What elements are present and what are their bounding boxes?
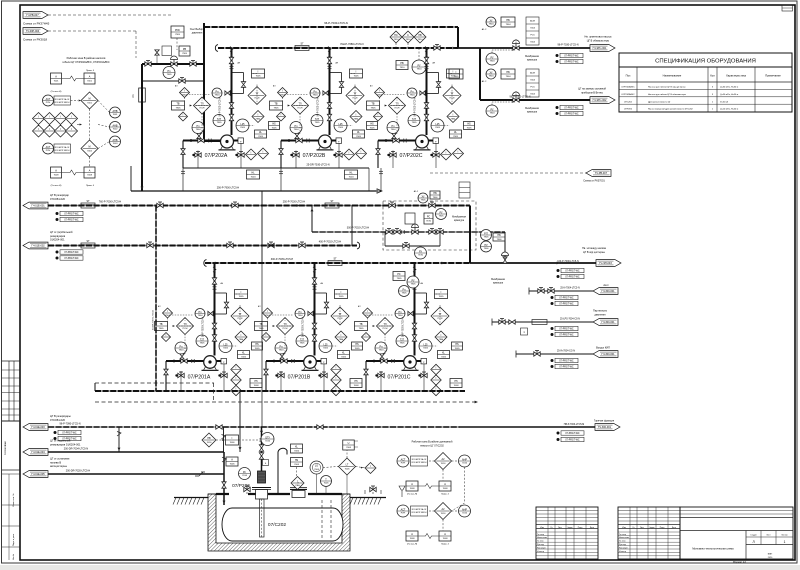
svg-text:Листов: Листов bbox=[781, 535, 787, 537]
svg-text:7904: 7904 bbox=[489, 24, 495, 26]
svg-text:ПВ: ПВ bbox=[207, 437, 211, 440]
svg-text:Кол: Кол bbox=[710, 74, 715, 78]
svg-text:07/Р202С: 07/Р202С bbox=[399, 153, 422, 159]
svg-text:Взам. инв. №: Взам. инв. № bbox=[12, 493, 15, 507]
svg-text:7016: 7016 bbox=[462, 463, 468, 465]
line class tag 1 bbox=[556, 54, 559, 57]
svg-text:давления: давления bbox=[594, 314, 606, 317]
svg-text:НS: НS bbox=[295, 459, 299, 462]
svg-text:07/С081-020: 07/С081-020 bbox=[50, 418, 66, 422]
svg-text:7005: 7005 bbox=[258, 136, 264, 138]
svg-text:Гл.техн: Гл.техн bbox=[537, 541, 544, 543]
svg-text:07/С202: 07/С202 bbox=[268, 522, 286, 528]
svg-text:ПВЧ: ПВЧ bbox=[239, 339, 244, 341]
svg-text:(Уч вых-Н): (Уч вых-Н) bbox=[51, 91, 62, 93]
svg-text:50-DR-7007-LTC5-N: 50-DR-7007-LTC5-N bbox=[153, 309, 155, 330]
pump 07/P201B bbox=[304, 356, 317, 369]
svg-text:Лист: Лист bbox=[640, 527, 644, 529]
wire riser between bottom lines bbox=[118, 427, 120, 452]
svg-text:V=10 м3: V=10 м3 bbox=[720, 101, 729, 103]
svg-text:07/Р201В: 07/Р201В bbox=[288, 375, 311, 381]
svg-text:ЦГ от подземной: ЦГ от подземной bbox=[50, 439, 71, 443]
svg-text:7904: 7904 bbox=[313, 95, 319, 97]
svg-text:ГЧ-ЭП-003: ГЧ-ЭП-003 bbox=[599, 262, 612, 265]
svg-text:7008: 7008 bbox=[87, 175, 93, 177]
logic dashed link 2 bbox=[89, 157, 91, 167]
svg-text:арматура: арматура bbox=[454, 220, 465, 222]
svg-text:7004: 7004 bbox=[530, 80, 536, 82]
svg-text:прибором В Ветны: прибором В Ветны bbox=[581, 92, 603, 95]
restriction orifice C1 bbox=[139, 88, 146, 102]
svg-text:7905: 7905 bbox=[176, 108, 182, 110]
svg-text:Пар низкого: Пар низкого bbox=[593, 310, 608, 313]
alarm circle АНВ-7001 bbox=[110, 107, 121, 118]
svg-text:25-LPS-7004-CS-N: 25-LPS-7004-CS-N bbox=[560, 319, 580, 321]
valve on 400 header extra bbox=[268, 243, 274, 247]
svg-text:7904: 7904 bbox=[179, 350, 185, 352]
svg-text:(Уч вых-Н): (Уч вых-Н) bbox=[407, 494, 418, 496]
wire air line bbox=[516, 353, 593, 355]
expansion vessel bbox=[162, 46, 172, 56]
svg-text:07/С081-020: 07/С081-020 bbox=[50, 197, 66, 201]
svg-text:Рабочая зона В районе насосов: Рабочая зона В районе насосов bbox=[67, 56, 106, 60]
svg-text:7008: 7008 bbox=[443, 488, 449, 490]
level dashed lines in tank bbox=[321, 500, 323, 538]
svg-text:(Уч вых-Н): (Уч вых-Н) bbox=[51, 185, 62, 187]
svg-text:7904: 7904 bbox=[298, 315, 304, 317]
svg-text:7905: 7905 bbox=[411, 284, 417, 286]
svg-text:7005: 7005 bbox=[241, 357, 247, 359]
box PDI-7910 bbox=[396, 61, 408, 70]
svg-text:НБ: НБ bbox=[497, 234, 501, 237]
vent valve bbox=[155, 50, 159, 55]
box steam 1 bbox=[521, 328, 528, 335]
flag ЦГ от резервуаров bbox=[23, 242, 48, 249]
pressure reducing line bbox=[142, 63, 204, 65]
svg-text:LG: LG bbox=[315, 465, 318, 468]
svg-text:ПСН: ПСН bbox=[183, 328, 188, 330]
svg-text:7904: 7904 bbox=[365, 315, 371, 317]
logic text box 2 bbox=[54, 144, 71, 153]
svg-text:Наименование: Наименование bbox=[663, 74, 682, 78]
svg-text:07-PRGT-WC: 07-PRGT-WC bbox=[559, 361, 574, 363]
pump 07/P201C piping bbox=[366, 360, 404, 362]
svg-text:7905: 7905 bbox=[371, 108, 377, 110]
svg-text:ВУ В НКПР ГАЗОН: ВУ В НКПР ГАЗОН bbox=[412, 461, 427, 464]
svg-text:М: М bbox=[89, 146, 91, 149]
wire steam line bbox=[492, 321, 593, 323]
ground line left bbox=[174, 497, 208, 499]
valve on reducing line left bbox=[145, 62, 151, 66]
svg-text:7905: 7905 bbox=[200, 343, 206, 345]
station dashed enclosure bbox=[383, 201, 476, 250]
nozzle valves on pit top bbox=[244, 487, 250, 491]
coupling box on column bbox=[263, 460, 269, 466]
wire riser A to recirc bbox=[182, 168, 184, 191]
dosing control valve station 1 bbox=[486, 17, 496, 27]
svg-text:РУН: РУН bbox=[46, 102, 51, 104]
gas detector diamonds row 2 bbox=[33, 125, 45, 137]
svg-text:ТВ: ТВ bbox=[371, 103, 374, 106]
svg-text:ТВ: ТВ bbox=[259, 323, 262, 326]
flag ЦГ В резервуар bbox=[23, 202, 48, 209]
svg-text:7904: 7904 bbox=[265, 315, 271, 317]
svg-text:7904: 7904 bbox=[379, 350, 385, 352]
svg-text:Мембранная: Мембранная bbox=[491, 279, 505, 281]
svg-text:Подп: Подп bbox=[578, 527, 583, 529]
svg-text:7904: 7904 bbox=[398, 315, 404, 317]
flow element suction manifold bbox=[328, 261, 342, 266]
svg-text:ЦГ от (м)обильной: ЦГ от (м)обильной bbox=[50, 230, 73, 234]
svg-text:ЦГ от установки: ЦГ от установки bbox=[50, 457, 70, 461]
svg-text:Стадия: Стадия bbox=[750, 535, 756, 537]
svg-text:7905: 7905 bbox=[400, 343, 406, 345]
svg-text:ГЧ-ЭПч-002: ГЧ-ЭПч-002 bbox=[593, 99, 607, 102]
svg-text:7004: 7004 bbox=[349, 177, 355, 179]
station right valves bbox=[429, 230, 435, 234]
svg-text:ПВЧ: ПВЧ bbox=[451, 118, 456, 120]
svg-text:1: 1 bbox=[784, 540, 786, 544]
signal wire from flag PIC37N45 bbox=[48, 14, 171, 16]
work zone logic row 2 bbox=[397, 505, 409, 517]
pump 07/P202A bbox=[221, 135, 234, 148]
left margin attachment tables bbox=[2, 360, 20, 362]
svg-text:Поз: Поз bbox=[626, 74, 631, 78]
svg-text:300-Р-7005-LTC5-Н: 300-Р-7005-LTC5-Н bbox=[271, 258, 294, 261]
wire recirculation header 256-P-7900 bbox=[368, 168, 370, 191]
svg-text:96-Р-7005-LTC5-Н: 96-Р-7005-LTC5-Н bbox=[220, 97, 222, 117]
svg-text:07-PRGT-WC: 07-PRGT-WC bbox=[564, 62, 579, 64]
svg-text:РУН: РУН bbox=[46, 150, 51, 152]
svg-text:7005: 7005 bbox=[439, 296, 445, 298]
svg-text:гибели ЦГ 07/Р202А/В/С, 07/Р20: гибели ЦГ 07/Р202А/В/С, 07/Р201А/В/С bbox=[62, 60, 109, 64]
svg-text:ST: ST bbox=[330, 200, 334, 203]
svg-text:С1: С1 bbox=[131, 94, 135, 98]
svg-text:7006: 7006 bbox=[294, 464, 300, 466]
svg-text:арматура: арматура bbox=[527, 112, 538, 114]
svg-text:96-Р-7005-LTC5-Н: 96-Р-7005-LTC5-Н bbox=[318, 97, 320, 117]
svg-text:7906: 7906 bbox=[484, 248, 490, 250]
circle TI-7006 bbox=[321, 476, 332, 487]
svg-text:Лист: Лист bbox=[766, 535, 770, 537]
wire lower discharge header bbox=[95, 390, 465, 392]
box HL-7004 B bbox=[345, 170, 358, 179]
svg-text:200-DR-7020-LTC5-Н: 200-DR-7020-LTC5-Н bbox=[66, 470, 91, 473]
svg-text:7006: 7006 bbox=[324, 483, 330, 485]
svg-text:7008: 7008 bbox=[254, 385, 260, 387]
svg-text:7905: 7905 bbox=[274, 108, 280, 110]
svg-text:налива В: налива В bbox=[50, 460, 61, 464]
wire nitrogen line bbox=[529, 290, 593, 292]
svg-text:7006: 7006 bbox=[230, 464, 236, 466]
svg-text:7005: 7005 bbox=[240, 127, 246, 129]
tag rows return bbox=[54, 431, 57, 434]
svg-text:7904: 7904 bbox=[294, 129, 300, 131]
svg-text:07-PRGT-WC: 07-PRGT-WC bbox=[564, 56, 579, 58]
svg-text:Формат А1: Формат А1 bbox=[733, 560, 747, 564]
station left valves bbox=[386, 230, 392, 234]
svg-text:Примечание: Примечание bbox=[765, 74, 781, 78]
pump 07/P202A piping bbox=[183, 140, 221, 142]
svg-text:7906: 7906 bbox=[421, 200, 427, 202]
station bypass bbox=[384, 232, 386, 246]
svg-text:Схема от РК3018: Схема от РК3018 bbox=[23, 38, 47, 42]
flag 96-P-7090 left bbox=[23, 424, 48, 431]
pump 07/P201B instrument cluster bbox=[314, 263, 316, 356]
svg-text:256-Р-7900-LTC5-Н: 256-Р-7900-LTC5-Н bbox=[217, 187, 240, 190]
pump 07/P201B piping bbox=[266, 360, 304, 362]
svg-text:7004: 7004 bbox=[530, 28, 536, 30]
pump 07/P201C bbox=[404, 356, 417, 369]
pump 07/P202B bbox=[319, 135, 332, 148]
svg-text:7016: 7016 bbox=[207, 442, 213, 444]
svg-text:7005: 7005 bbox=[455, 348, 461, 350]
svg-text:ПВЧ: ПВЧ bbox=[439, 339, 444, 341]
svg-text:7008: 7008 bbox=[454, 385, 460, 387]
svg-text:Дренажная емкость ЦГ: Дренажная емкость ЦГ bbox=[648, 101, 671, 103]
valve air bbox=[534, 352, 540, 356]
wire station feed bbox=[469, 206, 471, 264]
svg-text:НБ: НБ bbox=[506, 19, 510, 22]
svg-text:7005: 7005 bbox=[423, 348, 429, 350]
svg-text:Q=10 м3/ч, Н=50 м: Q=10 м3/ч, Н=50 м bbox=[720, 109, 739, 111]
wire discharge header 96-P-7030 (top) bbox=[204, 26, 458, 28]
svg-text:7190: 7190 bbox=[418, 255, 424, 257]
svg-text:7910: 7910 bbox=[417, 69, 423, 71]
boxes right of P206 bbox=[291, 444, 303, 453]
svg-text:96-Р-7005-LTC5-Н: 96-Р-7005-LTC5-Н bbox=[415, 97, 417, 117]
pump 07/P201C instrument cluster bbox=[414, 263, 416, 356]
top-right corner revision box bbox=[782, 5, 793, 11]
svg-text:Инв.№: Инв.№ bbox=[12, 554, 15, 560]
svg-text:7005: 7005 bbox=[339, 296, 345, 298]
svg-text:Н.контр: Н.контр bbox=[537, 551, 545, 553]
pipe break symbol on 7020 bbox=[195, 472, 205, 476]
valve on header 400 bbox=[147, 243, 153, 247]
svg-text:Воздух КИП: Воздух КИП bbox=[596, 347, 610, 350]
svg-text:ГЧ-300-001: ГЧ-300-001 bbox=[601, 353, 615, 356]
svg-text:7005: 7005 bbox=[256, 76, 262, 78]
line class tag 3 bbox=[556, 106, 559, 109]
svg-text:07-PRGT-WC: 07-PRGT-WC bbox=[559, 335, 574, 337]
svg-text:ГЧ-01Е-001: ГЧ-01Е-001 bbox=[31, 205, 45, 208]
svg-text:Нв. эстакаду налива: Нв. эстакаду налива bbox=[582, 247, 606, 250]
svg-text:7004: 7004 bbox=[530, 42, 536, 44]
svg-text:7904: 7904 bbox=[279, 350, 285, 352]
svg-text:ГЧ-01Е-004: ГЧ-01Е-004 bbox=[31, 451, 45, 454]
svg-text:ТВ: ТВ bbox=[359, 323, 362, 326]
svg-text:7016: 7016 bbox=[265, 441, 271, 443]
svg-text:ГЧ-ЭПч-001: ГЧ-ЭПч-001 bbox=[593, 47, 607, 50]
svg-text:07/Р202А/В/С: 07/Р202А/В/С bbox=[621, 93, 635, 96]
svg-text:7005: 7005 bbox=[441, 357, 447, 359]
pump 07/P202A instrument cluster bbox=[231, 48, 233, 136]
flag off-page PIC37N45 bbox=[23, 12, 48, 19]
svg-text:ВУ В НКПР ГАЗОН: ВУ В НКПР ГАЗОН bbox=[55, 101, 70, 104]
svg-text:7910: 7910 bbox=[418, 39, 424, 41]
signal wire from flag PIC3018 bbox=[48, 30, 136, 32]
svg-text:ST: ST bbox=[86, 200, 90, 203]
svg-text:07/Р206: 07/Р206 bbox=[624, 109, 633, 111]
svg-text:7904: 7904 bbox=[489, 76, 495, 78]
svg-text:7008: 7008 bbox=[410, 538, 416, 540]
diamond right of P206 bbox=[291, 477, 304, 490]
wire transfer header 250-P-7030 bbox=[48, 205, 470, 207]
flag Нв. цементаж flag bbox=[590, 45, 615, 52]
svg-text:НБ: НБ bbox=[433, 192, 437, 195]
svg-text:ВУ В НКПР 5А+ОК: ВУ В НКПР 5А+ОК bbox=[412, 508, 427, 511]
svg-text:ПВЧ: ПВЧ bbox=[354, 118, 359, 120]
svg-text:7008: 7008 bbox=[410, 488, 416, 490]
svg-text:(Уч вых-Н): (Уч вых-Н) bbox=[407, 544, 418, 546]
svg-text:Прим. 4: Прим. 4 bbox=[86, 70, 95, 72]
svg-text:арматура: арматура bbox=[527, 60, 538, 62]
svg-text:автоцистерны: автоцистерны bbox=[50, 465, 67, 468]
logic diamond M1 bbox=[81, 92, 98, 109]
pump 07/P202B piping bbox=[281, 140, 319, 142]
station gauge circle bbox=[436, 209, 447, 220]
svg-text:Мембранная: Мембранная bbox=[525, 108, 539, 110]
svg-text:7004: 7004 bbox=[251, 177, 257, 179]
svg-text:7904: 7904 bbox=[410, 95, 416, 97]
svg-text:7006: 7006 bbox=[346, 447, 352, 449]
circle PI-7016 bbox=[239, 468, 251, 480]
svg-text:ПВЧ: ПВЧ bbox=[256, 118, 261, 120]
svg-text:7016: 7016 bbox=[441, 513, 447, 515]
svg-text:7904: 7904 bbox=[182, 94, 188, 96]
svg-text:7904: 7904 bbox=[391, 129, 397, 131]
svg-text:Рук.отд: Рук.отд bbox=[537, 544, 545, 546]
svg-text:7904: 7904 bbox=[506, 24, 512, 26]
box stack U-7006 bbox=[343, 440, 355, 450]
svg-text:300-Р-7002-LTC5-Н: 300-Р-7002-LTC5-Н bbox=[347, 227, 370, 230]
svg-text:7005: 7005 bbox=[338, 127, 344, 129]
svg-text:ТВ: ТВ bbox=[159, 323, 162, 326]
svg-text:7002: 7002 bbox=[87, 150, 93, 152]
svg-text:96-Р-7030-LTC5-N: 96-Р-7030-LTC5-N bbox=[324, 21, 348, 25]
svg-text:РВ: РВ bbox=[183, 48, 187, 51]
svg-text:U: U bbox=[348, 442, 350, 445]
logic diamond M2 bbox=[81, 140, 98, 157]
valves return line bbox=[216, 425, 222, 429]
station gauge box PG-7190 bbox=[424, 213, 433, 224]
svg-text:Нв. цементовоз насоса: Нв. цементовоз насоса bbox=[585, 36, 613, 39]
box near solenoid bbox=[430, 191, 440, 199]
signal dashes near P206 bbox=[216, 439, 226, 441]
wire rail loading line flow arrow bbox=[557, 262, 560, 265]
svg-text:7005: 7005 bbox=[453, 136, 459, 138]
svg-text:7904: 7904 bbox=[198, 315, 204, 317]
svg-text:ГЧ-01Е-002: ГЧ-01Е-002 bbox=[31, 245, 45, 248]
svg-text:7905: 7905 bbox=[182, 53, 188, 55]
diamond PSA-7910 bbox=[402, 31, 414, 43]
work zone logic row 1 bbox=[397, 455, 409, 467]
svg-text:Прим. 4: Прим. 4 bbox=[86, 185, 95, 187]
svg-text:ГЧ-300-001: ГЧ-300-001 bbox=[598, 426, 612, 429]
svg-text:7905: 7905 bbox=[359, 328, 365, 330]
svg-text:ВУ В НКПР 5А+ОК: ВУ В НКПР 5А+ОК bbox=[55, 98, 70, 101]
svg-text:Монтажно-технологическая схема: Монтажно-технологическая схема bbox=[692, 547, 734, 551]
svg-text:ВУ В НКПР ГАЗОН: ВУ В НКПР ГАЗОН bbox=[55, 149, 70, 152]
svg-text:07-PRGT-WC: 07-PRGT-WC bbox=[564, 114, 579, 116]
svg-text:Насосы для гибели ЦГ В ж/д цис: Насосы для гибели ЦГ В ж/д цистерны bbox=[648, 87, 686, 89]
svg-text:7905: 7905 bbox=[259, 328, 265, 330]
svg-text:емкости ЦГ 07/С202: емкости ЦГ 07/С202 bbox=[420, 444, 444, 447]
svg-text:7905: 7905 bbox=[397, 278, 403, 280]
svg-text:7006: 7006 bbox=[294, 451, 300, 453]
wire header 400-P-7002 bbox=[48, 245, 357, 247]
wire P206 discharge riser bbox=[261, 427, 263, 471]
flag 200-DR-7020 left bbox=[23, 471, 48, 478]
svg-text:АСМ: АСМ bbox=[530, 72, 535, 75]
svg-text:давления: давления bbox=[192, 32, 203, 35]
svg-text:ТЛ: ТЛ bbox=[299, 103, 302, 106]
title block revision grid 2 bbox=[618, 507, 680, 559]
svg-text:25-DR-7030-LTC5-N: 25-DR-7030-LTC5-N bbox=[306, 164, 329, 167]
flag Азот bbox=[593, 288, 618, 295]
svg-text:7016: 7016 bbox=[242, 475, 248, 477]
flag Горячая right bbox=[595, 424, 620, 431]
svg-text:7906: 7906 bbox=[497, 239, 503, 241]
flag Пар bbox=[593, 319, 618, 326]
pump 07/P202C instrument cluster bbox=[426, 48, 428, 136]
svg-text:ГЧ-300-001: ГЧ-300-001 bbox=[601, 290, 615, 293]
svg-text:НS: НS bbox=[455, 343, 459, 346]
svg-text:НБ: НБ bbox=[506, 71, 510, 74]
svg-text:Лист: Лист bbox=[558, 527, 562, 529]
wire branch 300-P-7002 bbox=[311, 206, 313, 233]
svg-text:96-Р-7005-LTC5-Н: 96-Р-7005-LTC5-Н bbox=[403, 317, 405, 337]
svg-text:7001: 7001 bbox=[113, 114, 119, 116]
svg-text:ПС: ПС bbox=[394, 34, 398, 37]
box HS-7906 bbox=[493, 233, 505, 241]
gauge PIT-7906 bbox=[481, 230, 492, 241]
svg-text:ВУ В НКПР 5А+ОК: ВУ В НКПР 5А+ОК bbox=[412, 458, 427, 461]
drain pit (concrete) bbox=[208, 494, 350, 551]
wire pump A suction stub bbox=[204, 140, 221, 142]
svg-text:7005: 7005 bbox=[255, 348, 261, 350]
logic arrow rows bbox=[80, 123, 82, 125]
wire station outlet drop bbox=[504, 232, 506, 256]
svg-text:7005: 7005 bbox=[454, 76, 460, 78]
svg-text:АСМ: АСМ bbox=[530, 20, 535, 23]
check valve P206 bbox=[260, 438, 264, 440]
valve on header bbox=[434, 46, 440, 50]
diamond PAH-7910 bbox=[414, 31, 426, 43]
svg-text:ПСН: ПСН bbox=[298, 107, 303, 109]
flag Воздух bbox=[593, 351, 618, 358]
alarm circle АНВ-7002 bbox=[110, 122, 121, 133]
wire header right downcomer bbox=[457, 27, 459, 48]
svg-text:ПВ: ПВ bbox=[418, 34, 422, 37]
tick pairs on risers bbox=[181, 170, 185, 172]
valve on reducing line right bbox=[190, 62, 196, 66]
svg-text:резервуаров 01/0204-001: резервуаров 01/0204-001 bbox=[50, 442, 81, 446]
svg-text:РУН: РУН bbox=[401, 463, 406, 465]
svg-text:7190: 7190 bbox=[426, 221, 432, 223]
svg-text:7005: 7005 bbox=[272, 128, 278, 130]
signal wire diamonds bbox=[395, 43, 397, 48]
tag rows air bbox=[551, 359, 554, 362]
svg-text:Схема от РК37001: Схема от РК37001 bbox=[583, 180, 605, 183]
svg-text:РУН: РУН bbox=[401, 513, 406, 515]
svg-text:7004: 7004 bbox=[530, 94, 536, 96]
svg-text:ПВЧ: ПВЧ bbox=[295, 485, 300, 487]
wire drain riser 50-DR-7007 bbox=[155, 206, 157, 392]
flag РК37001 bbox=[586, 170, 611, 177]
svg-text:07/Р202В: 07/Р202В bbox=[303, 153, 326, 159]
svg-text:7910: 7910 bbox=[406, 39, 412, 41]
